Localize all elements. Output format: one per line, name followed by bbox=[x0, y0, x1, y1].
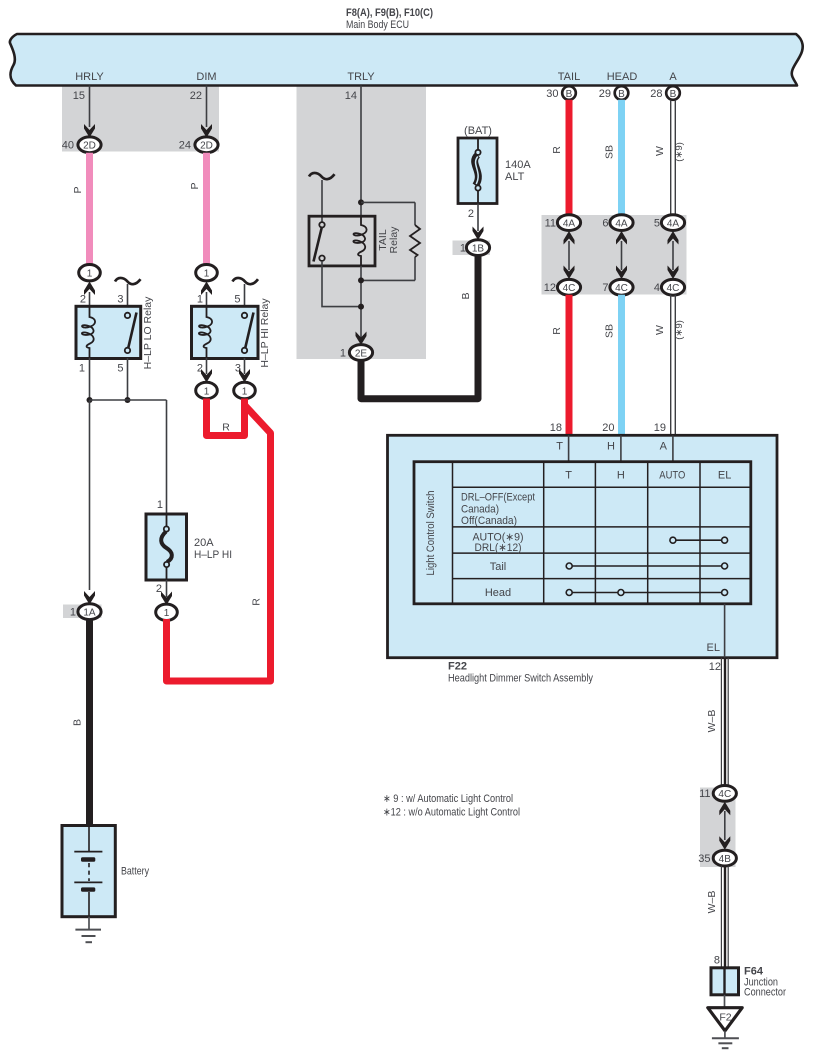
wire DIM pin 22 to connector 2D bbox=[201, 86, 212, 138]
svg-text:1: 1 bbox=[70, 607, 76, 619]
wire to fuse H-LP HI bbox=[90, 400, 167, 516]
svg-text:35: 35 bbox=[698, 853, 710, 865]
wire relay pin2 up to connector bbox=[80, 282, 95, 307]
wire B (black) to battery bbox=[72, 619, 90, 826]
svg-text:12: 12 bbox=[544, 282, 556, 294]
svg-text:7: 7 bbox=[602, 282, 608, 294]
wire to ground point F2 bbox=[724, 995, 726, 1008]
svg-text:5: 5 bbox=[654, 217, 660, 229]
wire HI relay pin 5 bbox=[234, 284, 244, 313]
connector 5 (4A) bbox=[654, 215, 685, 231]
svg-text:(∗9): (∗9) bbox=[674, 142, 685, 162]
note legend bbox=[383, 793, 520, 819]
svg-text:4C: 4C bbox=[667, 283, 680, 294]
svg-text:15: 15 bbox=[73, 90, 85, 102]
shading behind connector 1B bbox=[453, 241, 491, 256]
connector 6 (4A) bbox=[602, 215, 633, 231]
svg-text:1B: 1B bbox=[472, 243, 485, 254]
wire HI relay pin1 up to connector bbox=[197, 282, 212, 307]
svg-text:Tail: Tail bbox=[490, 561, 507, 573]
pin 30 bbox=[546, 88, 558, 100]
relay H-LP HI bbox=[192, 298, 272, 368]
svg-text:1: 1 bbox=[164, 608, 170, 619]
connector B at TAIL pin 30 bbox=[562, 86, 576, 100]
connector B at HEAD pin 29 bbox=[615, 86, 629, 100]
connector 1 (1B) bbox=[460, 240, 490, 256]
svg-text:1: 1 bbox=[242, 386, 248, 397]
svg-text:1: 1 bbox=[87, 269, 93, 280]
shading behind 4C/4B connectors bottom right bbox=[700, 788, 736, 868]
pin label DIM bbox=[196, 71, 216, 83]
wire P (pink) HRLY branch bbox=[72, 153, 90, 265]
ground below battery bbox=[75, 917, 101, 943]
svg-text:4B: 4B bbox=[719, 854, 732, 865]
Main Body ECU band bbox=[10, 34, 803, 86]
junction block shading around TAIL relay bbox=[297, 85, 427, 359]
svg-text:6: 6 bbox=[602, 217, 608, 229]
svg-text:A: A bbox=[669, 71, 677, 83]
harness jump A 4A to 4C bbox=[668, 231, 679, 279]
junction block shading behind 4A/4C connectors bbox=[542, 215, 687, 295]
svg-text:A: A bbox=[660, 441, 668, 453]
squiggle other-circuit symbol at LO relay pin3 bbox=[115, 278, 141, 284]
relay TAIL (box) bbox=[309, 216, 400, 266]
connector 11 (4C) bbox=[699, 786, 736, 802]
connector 1 above H-LP HI relay bbox=[196, 265, 218, 281]
wire R (red) TAIL circuit upper bbox=[551, 100, 569, 216]
svg-text:Canada): Canada) bbox=[461, 504, 499, 516]
svg-text:T: T bbox=[565, 470, 572, 482]
wire TAIL relay switch top bbox=[321, 180, 323, 222]
svg-text:TAIL: TAIL bbox=[558, 71, 580, 83]
wire LO relay pin 1 down bbox=[79, 358, 90, 400]
connector 7 (4C) bbox=[602, 279, 633, 295]
svg-text:1: 1 bbox=[157, 499, 163, 511]
wire TAIL relay coil bottom bbox=[360, 266, 362, 340]
connector 4 (4C) bbox=[654, 279, 685, 295]
svg-text:30: 30 bbox=[546, 88, 558, 100]
svg-text:4A: 4A bbox=[667, 218, 680, 229]
wire P (pink) DIM branch bbox=[189, 153, 207, 265]
svg-text:DRL(∗12): DRL(∗12) bbox=[475, 542, 522, 554]
svg-text:F8(A), F9(B), F10(C): F8(A), F9(B), F10(C) bbox=[346, 7, 433, 19]
svg-text:W: W bbox=[654, 146, 666, 156]
junction connector F64 bbox=[711, 966, 786, 999]
connector B at A pin 28 bbox=[666, 86, 680, 100]
pin label HEAD bbox=[607, 71, 638, 83]
wire LO relay pin 3 bbox=[117, 284, 127, 313]
svg-text:1: 1 bbox=[204, 269, 210, 280]
svg-text:22: 22 bbox=[190, 90, 202, 102]
wire ALT pin 2 to connector 1B bbox=[468, 204, 484, 241]
svg-text:4C: 4C bbox=[615, 283, 628, 294]
svg-text:1A: 1A bbox=[83, 608, 96, 619]
fuse 20A H-LP HI bbox=[146, 514, 232, 580]
harness jump HEAD 4A to 4C bbox=[616, 231, 627, 279]
svg-text:Connector: Connector bbox=[744, 987, 786, 999]
connector 1 above H-LP LO relay bbox=[79, 265, 101, 281]
label (BAT) bbox=[464, 125, 492, 137]
svg-text:B: B bbox=[460, 292, 472, 299]
pin label TAIL bbox=[558, 71, 580, 83]
harness jump TAIL 4A to 4C bbox=[564, 231, 575, 279]
svg-text:R: R bbox=[222, 422, 230, 434]
svg-text:R: R bbox=[551, 146, 563, 154]
label Main Body ECU header bbox=[346, 7, 433, 31]
wire EL inside F22 bbox=[707, 604, 725, 658]
svg-text:T: T bbox=[556, 441, 563, 453]
shading behind connector 1A bbox=[63, 605, 102, 619]
wire W-B from F22 pin 12 bbox=[706, 658, 728, 786]
wire SB (sky blue) HEAD circuit lower bbox=[602, 295, 621, 435]
connector 35 (4B) bbox=[698, 850, 736, 866]
fusible link 140A ALT bbox=[458, 138, 531, 204]
wire B (black) from 2E to 1B bbox=[361, 255, 478, 399]
resistor parallel with TAIL relay coil bbox=[361, 202, 420, 280]
svg-text:8: 8 bbox=[714, 955, 720, 967]
squiggle other-circuit symbol above TAIL relay switch bbox=[309, 173, 335, 179]
svg-text:R: R bbox=[251, 598, 263, 606]
svg-text:24: 24 bbox=[179, 140, 191, 152]
svg-text:B: B bbox=[618, 89, 625, 100]
switch contacts Tail row bbox=[566, 563, 727, 569]
pin label TRLY bbox=[347, 71, 375, 83]
svg-text:SB: SB bbox=[604, 145, 616, 159]
junction node above TAIL relay bbox=[358, 199, 364, 205]
svg-text:Off(Canada): Off(Canada) bbox=[461, 515, 517, 527]
svg-text:∗ 9 : w/ Automatic Light Contr: ∗ 9 : w/ Automatic Light Control bbox=[383, 793, 513, 805]
wire R (red) TAIL circuit lower bbox=[550, 295, 569, 435]
svg-text:18: 18 bbox=[550, 422, 562, 434]
wire W-B from 4B to junction connector bbox=[706, 866, 728, 968]
pin 15 bbox=[73, 90, 85, 102]
pin 28 bbox=[650, 88, 662, 100]
svg-text:DRL–OFF(Except: DRL–OFF(Except bbox=[461, 492, 535, 504]
svg-text:TRLY: TRLY bbox=[347, 71, 375, 83]
pin 14 bbox=[345, 90, 357, 102]
ground point triangle F2 bbox=[708, 1008, 742, 1031]
svg-text:5: 5 bbox=[234, 294, 240, 306]
svg-text:F22: F22 bbox=[448, 661, 467, 673]
connector 24 (2D) bbox=[179, 137, 218, 153]
svg-text:HEAD: HEAD bbox=[607, 71, 638, 83]
connector 1 below HI relay pin 2 bbox=[196, 382, 218, 398]
svg-text:∗12 : w/o Automatic Light Cont: ∗12 : w/o Automatic Light Control bbox=[383, 807, 520, 819]
wire W (white) A circuit upper bbox=[654, 100, 685, 216]
svg-text:R: R bbox=[551, 327, 563, 335]
wire H inside F22 bbox=[607, 435, 621, 461]
wire into connector 2E bbox=[340, 332, 367, 360]
connector 40 (2D) bbox=[62, 137, 101, 153]
connector 1 (2E) bbox=[349, 345, 372, 361]
svg-text:ALT: ALT bbox=[505, 171, 525, 183]
junction node at LO pin5 bbox=[125, 397, 131, 403]
squiggle other-circuit symbol at HI relay pin5 bbox=[233, 278, 259, 284]
svg-text:4: 4 bbox=[654, 282, 660, 294]
svg-text:B: B bbox=[72, 719, 84, 726]
svg-text:Main Body ECU: Main Body ECU bbox=[346, 19, 409, 31]
connector 1 below fuse bbox=[156, 604, 178, 620]
svg-text:2: 2 bbox=[468, 208, 474, 220]
svg-text:140A: 140A bbox=[505, 159, 531, 171]
light control switch table bbox=[414, 462, 751, 604]
svg-text:DIM: DIM bbox=[196, 71, 216, 83]
svg-text:Light Control Switch: Light Control Switch bbox=[425, 491, 437, 576]
svg-text:28: 28 bbox=[650, 88, 662, 100]
svg-text:B: B bbox=[670, 89, 677, 100]
pin label A bbox=[669, 71, 677, 83]
svg-text:40: 40 bbox=[62, 140, 74, 152]
svg-text:4A: 4A bbox=[563, 218, 576, 229]
svg-text:29: 29 bbox=[599, 88, 611, 100]
svg-text:2E: 2E bbox=[355, 348, 368, 359]
svg-text:H–LP LO Relay: H–LP LO Relay bbox=[142, 296, 154, 370]
wire HI relay pin 2 to connector bbox=[197, 358, 212, 383]
connector 11 (4A) bbox=[545, 215, 581, 231]
svg-text:20: 20 bbox=[602, 422, 614, 434]
svg-text:12: 12 bbox=[709, 661, 721, 673]
svg-text:4A: 4A bbox=[615, 218, 628, 229]
svg-text:2D: 2D bbox=[200, 141, 213, 152]
svg-text:Battery: Battery bbox=[121, 866, 149, 878]
svg-text:1: 1 bbox=[204, 386, 210, 397]
wire fuse pin 2 to connector bbox=[156, 580, 172, 605]
pin 29 bbox=[599, 88, 611, 100]
svg-text:2D: 2D bbox=[83, 141, 96, 152]
junction node at LO pin1 bbox=[87, 397, 93, 403]
svg-text:HRLY: HRLY bbox=[75, 71, 104, 83]
connector 1 (1A) bbox=[70, 604, 101, 620]
wire R (red) long run to fuse connector bbox=[167, 405, 271, 681]
svg-text:5: 5 bbox=[117, 363, 123, 375]
svg-text:4C: 4C bbox=[718, 789, 731, 800]
svg-text:19: 19 bbox=[654, 422, 666, 434]
wire TAIL relay switch bottom bbox=[322, 261, 361, 307]
connector 1 below HI relay pin 3 bbox=[234, 382, 256, 398]
svg-text:3: 3 bbox=[117, 294, 123, 306]
wire HRLY pin 15 to connector 2D bbox=[84, 86, 95, 138]
wire T inside F22 bbox=[556, 435, 568, 461]
svg-text:Head: Head bbox=[485, 587, 511, 599]
svg-text:H: H bbox=[607, 441, 615, 453]
switch contacts AUTO row bbox=[670, 537, 728, 543]
wire HI relay pin 3 to connector bbox=[235, 358, 250, 383]
wire R (red) joining HI relay outputs bbox=[207, 399, 245, 436]
svg-text:B: B bbox=[566, 89, 573, 100]
svg-text:H–LP HI: H–LP HI bbox=[194, 549, 232, 561]
svg-text:P: P bbox=[72, 186, 84, 193]
wire LO pin1 continues to connector 1A bbox=[84, 400, 95, 605]
svg-text:W–B: W–B bbox=[706, 710, 718, 733]
svg-text:20A: 20A bbox=[194, 537, 214, 549]
svg-text:Headlight Dimmer Switch Assemb: Headlight Dimmer Switch Assembly bbox=[448, 673, 593, 685]
svg-text:H: H bbox=[617, 470, 625, 482]
svg-text:2: 2 bbox=[80, 294, 86, 306]
svg-text:1: 1 bbox=[460, 242, 466, 254]
svg-text:Relay: Relay bbox=[388, 226, 400, 254]
connector 12 (4C) bbox=[544, 279, 581, 295]
svg-text:AUTO: AUTO bbox=[659, 470, 685, 482]
pin 22 bbox=[190, 90, 202, 102]
label F22 bbox=[448, 661, 593, 685]
svg-text:W–B: W–B bbox=[706, 891, 718, 914]
svg-text:P: P bbox=[189, 182, 201, 189]
svg-text:(∗9): (∗9) bbox=[674, 320, 685, 340]
svg-text:1: 1 bbox=[340, 347, 346, 359]
junction node below coil bbox=[358, 277, 364, 283]
junction node to connector 2E bbox=[358, 304, 364, 310]
wire A inside F22 bbox=[660, 435, 673, 461]
wire LO relay pin 5 down bbox=[117, 358, 127, 400]
pin label HRLY bbox=[75, 71, 104, 83]
svg-text:11: 11 bbox=[545, 217, 556, 229]
svg-text:(BAT): (BAT) bbox=[464, 125, 492, 137]
svg-text:1: 1 bbox=[79, 363, 85, 375]
svg-text:1: 1 bbox=[197, 294, 203, 306]
svg-text:14: 14 bbox=[345, 90, 357, 102]
svg-text:4C: 4C bbox=[563, 283, 576, 294]
wire W (white) A circuit lower bbox=[654, 295, 685, 435]
svg-text:11: 11 bbox=[699, 788, 710, 800]
ground symbol bottom right bbox=[712, 1031, 739, 1048]
switch assembly F22 box bbox=[388, 435, 778, 657]
junction block shading behind 2D connectors bbox=[62, 85, 219, 152]
svg-text:W: W bbox=[654, 325, 666, 335]
harness jump 4C to 4B bbox=[719, 802, 730, 850]
switch contacts Head row bbox=[566, 590, 727, 596]
svg-text:H–LP HI Relay: H–LP HI Relay bbox=[259, 298, 271, 368]
wire TRLY pin 14 down bbox=[360, 86, 362, 217]
svg-text:F2: F2 bbox=[719, 1012, 731, 1024]
battery bbox=[62, 826, 149, 917]
svg-text:EL: EL bbox=[707, 642, 720, 654]
svg-text:EL: EL bbox=[718, 470, 731, 482]
svg-text:SB: SB bbox=[604, 324, 616, 338]
relay H-LP LO bbox=[76, 296, 154, 370]
wire SB (sky blue) HEAD circuit upper bbox=[604, 100, 622, 216]
